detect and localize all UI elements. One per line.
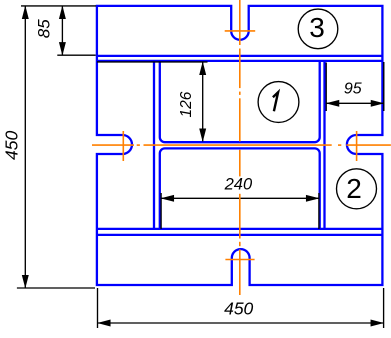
- svg-text:240: 240: [224, 176, 253, 194]
- svg-text:95: 95: [344, 81, 362, 98]
- svg-text:3: 3: [309, 12, 325, 43]
- svg-text:126: 126: [178, 91, 195, 117]
- svg-text:85: 85: [34, 19, 53, 38]
- svg-text:450: 450: [224, 299, 253, 319]
- svg-text:2: 2: [346, 173, 362, 204]
- svg-text:450: 450: [1, 131, 21, 160]
